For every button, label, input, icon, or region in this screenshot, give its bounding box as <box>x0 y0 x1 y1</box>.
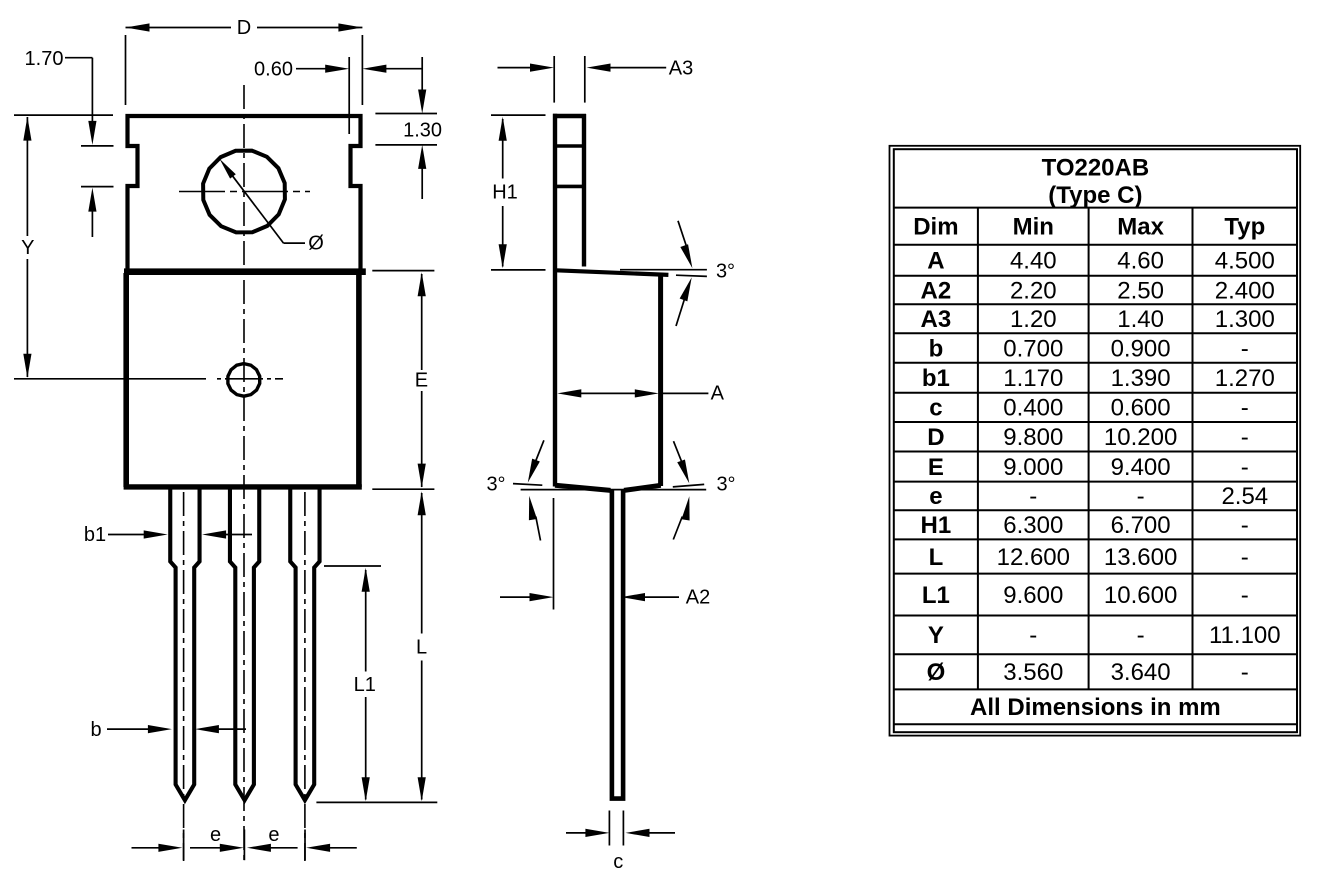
svg-text:2.54: 2.54 <box>1221 483 1268 510</box>
svg-text:3.640: 3.640 <box>1111 659 1171 686</box>
svg-text:0.400: 0.400 <box>1003 395 1063 422</box>
svg-text:-: - <box>1241 335 1249 362</box>
svg-text:c: c <box>929 395 942 422</box>
svg-text:(Type C): (Type C) <box>1048 182 1142 209</box>
svg-text:1.30: 1.30 <box>403 119 442 141</box>
side view: pin <box>612 490 623 799</box>
svg-text:Dim: Dim <box>913 213 958 240</box>
svg-text:-: - <box>1137 622 1145 649</box>
svg-text:2.400: 2.400 <box>1215 277 1275 304</box>
dimension Y (top edge to small hole center) <box>14 115 206 379</box>
svg-text:1.70: 1.70 <box>25 48 64 70</box>
svg-text:4.40: 4.40 <box>1010 248 1057 275</box>
svg-text:2.20: 2.20 <box>1010 277 1057 304</box>
svg-text:b1: b1 <box>922 365 950 392</box>
svg-text:10.200: 10.200 <box>1104 424 1177 451</box>
svg-text:L1: L1 <box>354 674 376 696</box>
svg-text:-: - <box>1241 582 1249 609</box>
dimension D (top width) <box>126 28 363 106</box>
side view: tab internal lines <box>553 146 586 186</box>
svg-text:1.390: 1.390 <box>1111 365 1171 392</box>
svg-text:H1: H1 <box>921 512 952 539</box>
svg-text:L: L <box>416 637 427 659</box>
svg-text:e: e <box>268 824 279 846</box>
dimension e (pin pitch, right) <box>244 830 356 861</box>
svg-text:TO220AB: TO220AB <box>1042 155 1150 182</box>
front view: body outline <box>124 273 362 487</box>
dimension 1.70 (notch height) <box>65 58 114 237</box>
svg-text:e: e <box>929 483 942 510</box>
svg-text:Min: Min <box>1013 213 1054 240</box>
side view: tab outline <box>553 114 586 487</box>
svg-text:L: L <box>929 544 944 571</box>
centerline: pin 3 <box>304 492 306 861</box>
svg-text:-: - <box>1241 424 1249 451</box>
svg-text:All Dimensions in mm: All Dimensions in mm <box>970 694 1221 721</box>
svg-text:0.900: 0.900 <box>1111 335 1171 362</box>
svg-text:3.560: 3.560 <box>1003 659 1063 686</box>
svg-text:A: A <box>927 248 944 275</box>
centerline: mounting hole horizontal <box>179 191 310 193</box>
dimension b1 (wide pin width) <box>108 534 252 536</box>
svg-text:0.600: 0.600 <box>1111 395 1171 422</box>
svg-text:b1: b1 <box>84 524 106 546</box>
svg-text:A2: A2 <box>921 277 952 304</box>
dimension b (narrow pin width) <box>107 728 246 730</box>
svg-text:c: c <box>613 851 623 873</box>
front view: flange bar (tab/body boundary) <box>124 268 366 275</box>
dimension 1.30 (tab top to notch) <box>375 57 437 199</box>
dimension e (pin pitch, left) <box>132 830 222 861</box>
svg-text:Typ: Typ <box>1224 213 1265 240</box>
svg-text:4.60: 4.60 <box>1117 248 1164 275</box>
dimension table: column lines <box>978 208 1193 690</box>
dimension L (pin length from body) <box>316 493 437 802</box>
leader: hole diameter Ø <box>228 169 306 243</box>
svg-text:-: - <box>1137 483 1145 510</box>
svg-text:1.270: 1.270 <box>1215 365 1275 392</box>
svg-text:H1: H1 <box>492 182 518 204</box>
svg-text:A2: A2 <box>686 586 710 608</box>
dimension L1 (narrow pin length) <box>324 566 381 800</box>
svg-text:Y: Y <box>21 237 34 259</box>
centerline: pin 1 <box>183 492 185 861</box>
svg-text:L1: L1 <box>922 582 950 609</box>
svg-text:13.600: 13.600 <box>1104 544 1177 571</box>
centerline: small hole horizontal <box>217 378 283 380</box>
svg-text:4.500: 4.500 <box>1215 248 1275 275</box>
svg-text:-: - <box>1241 395 1249 422</box>
svg-text:6.300: 6.300 <box>1003 512 1063 539</box>
svg-text:3°: 3° <box>716 474 735 496</box>
svg-text:-: - <box>1241 544 1249 571</box>
svg-text:11.100: 11.100 <box>1209 622 1281 649</box>
angle 3° (bottom of body, right) <box>673 441 704 539</box>
svg-text:E: E <box>928 454 944 481</box>
front view: mounting hole (faceted circle) <box>203 151 285 233</box>
dimension 0.60 (notch depth) <box>296 57 423 134</box>
svg-text:b: b <box>90 719 101 741</box>
svg-text:9.800: 9.800 <box>1003 424 1063 451</box>
svg-text:Ø: Ø <box>308 233 324 255</box>
angle 3° (bottom of body, left) <box>513 440 706 540</box>
svg-text:-: - <box>1241 512 1249 539</box>
dimension c (pin thickness) <box>566 811 675 846</box>
svg-text:9.400: 9.400 <box>1111 454 1171 481</box>
svg-text:A3: A3 <box>669 57 693 79</box>
dimension table: row lines <box>894 208 1297 725</box>
svg-text:10.600: 10.600 <box>1104 582 1177 609</box>
svg-text:-: - <box>1029 622 1037 649</box>
svg-text:6.700: 6.700 <box>1111 512 1171 539</box>
svg-text:A: A <box>711 383 725 405</box>
svg-text:1.170: 1.170 <box>1003 365 1063 392</box>
svg-text:-: - <box>1241 659 1249 686</box>
svg-text:12.600: 12.600 <box>997 544 1070 571</box>
svg-text:Y: Y <box>928 622 944 649</box>
svg-text:D: D <box>237 17 251 39</box>
svg-text:1.20: 1.20 <box>1010 306 1057 333</box>
svg-text:b: b <box>929 335 944 362</box>
dimension H1 (tab height) <box>491 115 546 270</box>
side view: body outline <box>555 270 668 490</box>
svg-text:-: - <box>1029 483 1037 510</box>
svg-text:D: D <box>927 424 944 451</box>
svg-text:Ø: Ø <box>927 659 946 686</box>
dimension A2 (body face to pin) <box>500 498 679 610</box>
svg-text:e: e <box>210 824 221 846</box>
svg-text:0.60: 0.60 <box>254 58 293 80</box>
svg-text:0.700: 0.700 <box>1003 335 1063 362</box>
svg-text:E: E <box>415 370 428 392</box>
svg-text:2.50: 2.50 <box>1117 277 1164 304</box>
svg-text:A3: A3 <box>921 306 952 333</box>
centerline: package vertical axis <box>243 85 245 861</box>
front view: small lower hole <box>228 364 260 397</box>
dimension E (body height) <box>372 271 434 490</box>
svg-text:3°: 3° <box>716 261 735 283</box>
front view: tab outline with side notches <box>128 116 361 272</box>
svg-text:-: - <box>1241 454 1249 481</box>
svg-text:9.600: 9.600 <box>1003 582 1063 609</box>
front view: pins 1,2,3 <box>170 489 319 800</box>
dimension A3 (tab thickness) <box>498 56 667 103</box>
angle 3° (top of body, right) <box>620 221 707 326</box>
dimension table: outer frame <box>890 146 1301 736</box>
dimension A (body thickness) <box>579 392 708 394</box>
svg-text:1.300: 1.300 <box>1215 306 1275 333</box>
svg-text:1.40: 1.40 <box>1117 306 1164 333</box>
svg-text:3°: 3° <box>486 474 505 496</box>
svg-text:9.000: 9.000 <box>1003 454 1063 481</box>
dimension table: inner frame <box>894 149 1297 732</box>
svg-text:Max: Max <box>1117 213 1164 240</box>
